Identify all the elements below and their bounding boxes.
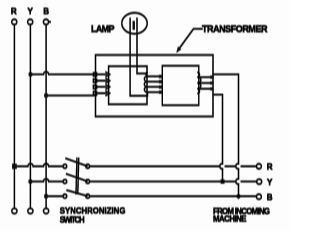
- terminal Y busbar: [28, 19, 33, 24]
- svg-text:MACHINE: MACHINE: [213, 215, 247, 224]
- wire Y column: [29, 25, 31, 209]
- transformer outer box: [96, 55, 214, 117]
- terminal incoming B: [256, 194, 261, 199]
- svg-text:Y: Y: [267, 178, 273, 187]
- svg-text:TRANSFORMER: TRANSFORMER: [202, 24, 268, 34]
- wire transformer output bottom to incoming Y: [213, 95, 223, 182]
- switch gang bar: [76, 159, 79, 194]
- svg-text:R: R: [11, 7, 17, 16]
- junction dot on Y column: [28, 180, 32, 184]
- svg-text:B: B: [267, 193, 273, 202]
- terminal R bottom: [12, 208, 17, 213]
- switch pole 1 left contact: [63, 164, 67, 168]
- terminal R busbar: [12, 19, 17, 24]
- square junction on R column: [12, 164, 17, 169]
- switch pole 1 blade: [66, 159, 87, 167]
- svg-text:Y: Y: [28, 7, 34, 16]
- svg-text:B: B: [43, 7, 49, 16]
- arrowhead: [176, 47, 181, 53]
- lamp filament bar: [133, 21, 135, 29]
- switch pole 3 blade: [67, 190, 87, 196]
- switch pole 1 right contact: [86, 164, 90, 168]
- junction dot Y tap: [29, 72, 33, 76]
- transformer core 2: [162, 66, 199, 105]
- wire lamp right lead: [137, 19, 147, 74]
- W4 tap wires to box edge: [201, 77, 214, 89]
- switch pole 3 left contact: [63, 194, 67, 198]
- terminal incoming R: [256, 164, 261, 169]
- secondary winding W2 (right of core 1) arcs: [144, 72, 147, 92]
- switch pole 2 right contact: [86, 180, 90, 184]
- links between W2 and W3: [147, 76, 162, 92]
- wire B to transformer primary bottom tap: [46, 95, 96, 97]
- hop of x238.5 over R line: [236, 164, 239, 169]
- winding W4 (right of core 2) arcs: [198, 72, 201, 93]
- lamp symbol: [122, 13, 147, 34]
- primary winding W1 rows (squares, lines, chevrons): [93, 72, 109, 95]
- bottom line B: [46, 195, 63, 197]
- wire switch2 to incoming Y: [90, 181, 257, 183]
- svg-text:SWITCH: SWITCH: [60, 215, 85, 224]
- wire switch1 to incoming R: [90, 165, 257, 167]
- wire B column: [45, 25, 47, 209]
- bottom line R (busbar R to switch to incoming R): [14, 164, 63, 167]
- hop of x222.5 over R line: [220, 164, 223, 169]
- bottom line Y: [30, 179, 63, 182]
- junction dot B tap: [44, 94, 48, 98]
- svg-text:SYNCHRONIZING: SYNCHRONIZING: [60, 207, 126, 216]
- transformer core 1: [109, 66, 147, 104]
- junction dot at incoming Y: [221, 180, 225, 184]
- wire R column: [13, 25, 15, 209]
- wire Y to transformer primary top tap (hop over B): [31, 72, 97, 75]
- svg-text:LAMP: LAMP: [91, 24, 115, 34]
- terminal B bottom: [44, 208, 49, 213]
- terminal incoming Y: [257, 179, 262, 184]
- terminal Y bottom: [28, 208, 33, 213]
- wire transformer output top to incoming B: [213, 74, 239, 196]
- terminal B busbar: [43, 19, 48, 24]
- switch pole 2 left contact: [63, 180, 67, 184]
- junction dot at incoming B: [236, 194, 241, 199]
- hop of x238.5 over Y line: [236, 179, 239, 184]
- wire lamp left lead: [130, 19, 147, 96]
- junction dot on B column: [44, 194, 48, 198]
- leader line to transformer: [179, 29, 203, 50]
- svg-text:R: R: [267, 162, 273, 171]
- switch pole 3 right contact: [86, 194, 90, 198]
- wire switch3 to incoming B: [90, 195, 257, 197]
- switch pole 2 blade: [67, 174, 87, 181]
